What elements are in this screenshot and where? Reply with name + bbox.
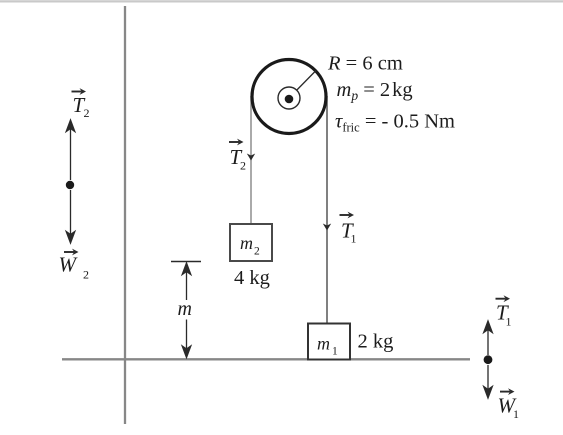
svg-text:1: 1	[351, 232, 357, 246]
wall (vertical axis line)	[124, 6, 126, 424]
mass m2 box	[230, 224, 272, 261]
svg-text:2: 2	[84, 106, 90, 120]
vector label T1 on right rope	[340, 212, 357, 246]
free-body left: particle dot	[66, 181, 74, 189]
svg-text:R = 6 cm: R = 6 cm	[327, 53, 403, 75]
svg-text:W: W	[59, 253, 79, 277]
pulley radius line	[289, 71, 316, 99]
free-body right: particle dot	[484, 355, 493, 364]
pulley axle dot	[285, 95, 294, 104]
svg-text:m: m	[240, 233, 253, 253]
height marker tick	[171, 261, 201, 263]
wire: left rope from pulley to m2	[250, 96, 252, 223]
svg-text:1: 1	[506, 315, 512, 329]
arrowhead on left rope (T2 direction)	[247, 154, 255, 161]
pulley outer circle	[252, 60, 326, 134]
svg-text:2 kg: 2 kg	[358, 331, 394, 353]
svg-text:2: 2	[83, 268, 89, 282]
svg-text:m: m	[178, 298, 192, 320]
arrowhead on right rope (T1 direction)	[323, 224, 331, 231]
pulley hub circle	[278, 87, 300, 109]
svg-text:2: 2	[254, 246, 260, 258]
free-body diagram right: arrows	[484, 321, 493, 398]
top border line	[0, 0, 563, 2]
free-body diagram left: arrows	[66, 120, 75, 243]
svg-text:mp = 2kg: mp = 2kg	[337, 79, 413, 103]
wire: right rope from pulley to m1	[326, 96, 328, 323]
svg-text:1: 1	[513, 407, 519, 421]
mass m1 box	[308, 324, 350, 360]
vector label W2 (free body left)	[59, 249, 90, 282]
vector label T2 on left rope	[229, 139, 246, 173]
svg-text:2: 2	[240, 159, 246, 173]
ground (horizontal line)	[62, 358, 470, 360]
vector label T1 (free body right)	[496, 295, 512, 328]
svg-text:1: 1	[332, 346, 338, 358]
svg-text:m: m	[317, 334, 330, 354]
svg-text:τfric = - 0.5 Nm: τfric = - 0.5 Nm	[335, 111, 455, 135]
vector label T2 (free body left)	[72, 88, 90, 120]
svg-text:4 kg: 4 kg	[234, 267, 270, 289]
vector label W1 (free body right)	[498, 388, 520, 421]
height marker arrow (double-headed, broken by label)	[182, 263, 191, 358]
